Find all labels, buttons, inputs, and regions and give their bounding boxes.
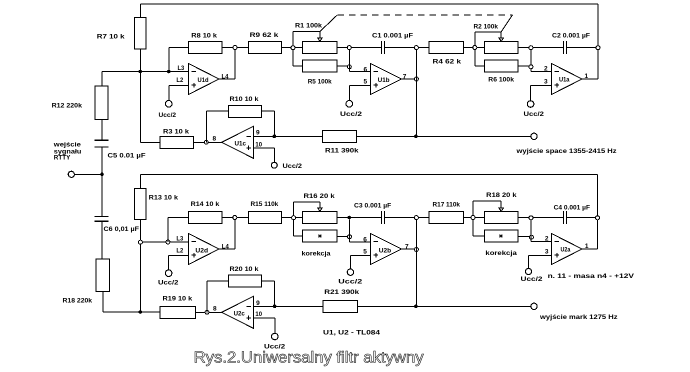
svg-text:R11 390k: R11 390k: [325, 148, 359, 155]
svg-text:R21 390k: R21 390k: [324, 289, 359, 296]
svg-text:R13 10 k: R13 10 k: [149, 195, 179, 202]
svg-text:U2d: U2d: [195, 248, 208, 255]
svg-text:6: 6: [364, 67, 368, 74]
svg-text:10: 10: [255, 311, 262, 318]
svg-text:2: 2: [545, 236, 549, 243]
svg-text:R20 10 k: R20 10 k: [230, 266, 259, 273]
svg-text:C3 0.001 µF: C3 0.001 µF: [354, 203, 391, 210]
svg-text:8: 8: [213, 306, 217, 313]
svg-text:L2: L2: [176, 77, 183, 84]
svg-text:C2 0.001 µF: C2 0.001 µF: [552, 33, 590, 40]
svg-text:korekcja: korekcja: [302, 251, 331, 258]
svg-text:C1 0.001 µF: C1 0.001 µF: [372, 33, 413, 40]
svg-text:1: 1: [585, 243, 589, 250]
svg-text:5: 5: [364, 79, 368, 86]
svg-text:L3: L3: [178, 65, 185, 72]
svg-text:U1d: U1d: [198, 77, 209, 84]
svg-text:L2: L2: [176, 248, 183, 255]
svg-text:U1b: U1b: [378, 77, 390, 84]
svg-text:Ucc/2: Ucc/2: [338, 279, 362, 286]
svg-text:Ucc/2: Ucc/2: [340, 111, 362, 118]
svg-text:korekcja: korekcja: [485, 250, 517, 257]
svg-text:R5 100k: R5 100k: [308, 79, 332, 86]
svg-text:U1c: U1c: [235, 141, 247, 148]
svg-text:8: 8: [213, 136, 217, 143]
svg-text:3: 3: [545, 249, 549, 256]
svg-text:RTTY: RTTY: [54, 155, 71, 162]
svg-text:R6 100k: R6 100k: [488, 77, 514, 84]
svg-text:R7 10 k: R7 10 k: [97, 34, 125, 41]
svg-text:C6 0,01 µF: C6 0,01 µF: [104, 226, 140, 233]
svg-text:R12 220k: R12 220k: [52, 103, 83, 110]
svg-text:U2b: U2b: [379, 247, 391, 254]
svg-text:wyjście space 1355-2415 Hz: wyjście space 1355-2415 Hz: [515, 148, 617, 155]
svg-text:R8 10 k: R8 10 k: [191, 33, 217, 40]
svg-text:9: 9: [256, 300, 260, 307]
svg-text:R18 20 k: R18 20 k: [486, 192, 517, 199]
svg-text:R9 62 k: R9 62 k: [250, 32, 279, 39]
svg-text:R17 110k: R17 110k: [433, 202, 461, 209]
svg-text:Ucc/2: Ucc/2: [158, 280, 179, 287]
svg-text:U2a: U2a: [561, 246, 571, 253]
svg-text:3: 3: [544, 79, 548, 86]
svg-text:U1, U2 - TL084: U1, U2 - TL084: [323, 330, 380, 337]
svg-text:Ucc/2: Ucc/2: [159, 112, 177, 119]
svg-text:1: 1: [585, 73, 589, 80]
svg-text:U2c: U2c: [234, 311, 246, 318]
svg-text:U1a: U1a: [559, 77, 570, 84]
svg-text:Ucc/2: Ucc/2: [283, 163, 303, 170]
svg-text:R2 100k: R2 100k: [474, 24, 499, 31]
svg-text:C4 0.001 µF: C4 0.001 µF: [554, 205, 590, 212]
svg-text:L3: L3: [176, 236, 183, 243]
svg-text:Ucc/2: Ucc/2: [524, 111, 545, 118]
svg-text:9: 9: [256, 130, 260, 137]
svg-text:R14 10 k: R14 10 k: [191, 201, 220, 208]
svg-text:R1 100k: R1 100k: [295, 23, 322, 30]
svg-text:2: 2: [544, 66, 548, 73]
svg-text:Ucc/2: Ucc/2: [521, 276, 543, 283]
svg-text:10: 10: [255, 141, 262, 148]
svg-text:5: 5: [363, 249, 367, 256]
svg-text:wyjście mark 1275 Hz: wyjście mark 1275 Hz: [539, 314, 619, 321]
svg-text:R4 62 k: R4 62 k: [433, 59, 462, 66]
svg-text:Rys.2.Uniwersalny filtr aktywn: Rys.2.Uniwersalny filtr aktywny: [194, 350, 424, 367]
svg-text:n. 11 - masa n4 - +12V: n. 11 - masa n4 - +12V: [548, 273, 635, 280]
svg-text:C5 0.01 µF: C5 0.01 µF: [108, 153, 146, 160]
svg-text:R19 10 k: R19 10 k: [163, 296, 193, 303]
svg-text:R10 10 k: R10 10 k: [230, 96, 259, 103]
svg-text:R3 10 k: R3 10 k: [163, 129, 189, 136]
svg-text:6: 6: [363, 237, 367, 244]
svg-text:R15 110k: R15 110k: [251, 201, 279, 208]
svg-text:R18 220k: R18 220k: [63, 298, 93, 305]
svg-text:R16 20 k: R16 20 k: [304, 193, 336, 200]
